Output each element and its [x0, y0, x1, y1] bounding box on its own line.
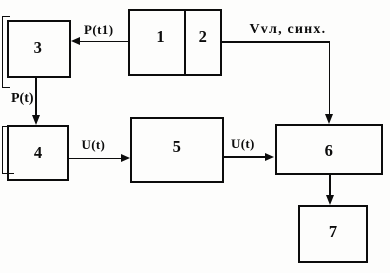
wire from block 3 down to block 4: [35, 78, 37, 116]
label U(t) first: [82, 137, 106, 153]
cropped box remnant lower-left: [2, 126, 14, 174]
arrowhead into block 6 top: [325, 114, 333, 124]
wire from block 4 to block 5: [69, 158, 122, 160]
wire corner down to block 6 (vertical): [329, 41, 331, 115]
block 3: [7, 20, 71, 78]
arrowhead into block 5 left side: [121, 154, 130, 162]
label P(t): [11, 91, 34, 107]
wire from block 2 to corner (horizontal): [222, 41, 330, 43]
label P(t1): [84, 22, 113, 38]
label Vvл, синх.: [250, 22, 327, 38]
block 5: [130, 117, 224, 184]
block 7: [298, 205, 368, 263]
label U(t) second: [231, 136, 255, 152]
block 6: [275, 124, 383, 175]
arrowhead into block 6 left side: [265, 153, 274, 161]
cropped box remnant upper-left: [2, 16, 10, 88]
block 4: [7, 125, 69, 181]
arrowhead into block 4 top: [32, 115, 40, 125]
arrowhead into block 7 top: [326, 195, 334, 205]
arrowhead into block 3 right side: [71, 37, 80, 45]
wire from block 6 down to block 7: [329, 175, 331, 196]
wire from block 1 to block 3: [79, 41, 128, 43]
block 1 (left cell of unit 1-2): [128, 9, 186, 76]
wire from block 5 to block 6: [223, 156, 266, 158]
block 2 (right cell of unit 1-2): [184, 9, 223, 76]
